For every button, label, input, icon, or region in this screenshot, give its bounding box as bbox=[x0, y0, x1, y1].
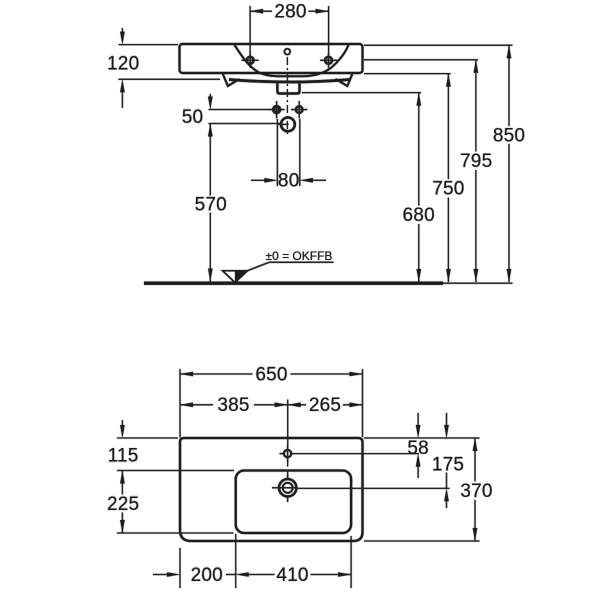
plan: dimension 650 line bbox=[180, 372, 363, 377]
dimension 120 upper arrow bbox=[120, 28, 125, 45]
basin body (front view) bbox=[180, 44, 363, 73]
dimension 50 top extension line bbox=[209, 109, 271, 111]
dimension 280 line bbox=[250, 9, 329, 14]
plan: dimension 175 upper arrow bbox=[444, 413, 449, 438]
plan: dimension 175 lower arrow bbox=[444, 488, 449, 508]
floor level symbol bbox=[223, 262, 334, 282]
dimension 120 bottom extension line bbox=[119, 78, 221, 80]
dimension 120 lower arrow bbox=[120, 79, 125, 108]
apron left tab bbox=[223, 74, 240, 86]
wall supply hole left bbox=[269, 101, 285, 118]
dimension 680 line bbox=[417, 93, 422, 282]
drain outlet box bbox=[277, 84, 299, 94]
plan: bottom extension line bowl right bbox=[350, 536, 352, 588]
wall supply hole right bbox=[291, 101, 307, 118]
extension line 680 bbox=[302, 92, 421, 94]
dimension 280 extension line right bbox=[328, 6, 330, 56]
dimension 570 line bbox=[208, 124, 213, 282]
plan: dimension 58 lower arrow bbox=[416, 454, 421, 478]
plan: dimension 410 line bbox=[236, 572, 351, 577]
plan: right extension line top bbox=[364, 437, 480, 439]
plan: drain bbox=[272, 474, 297, 502]
plan: dimension 370 line bbox=[473, 438, 478, 541]
plan: bowl outline bbox=[236, 471, 351, 534]
plan: dimension 115 upper arrow bbox=[120, 420, 125, 438]
wall drain hole bbox=[279, 118, 295, 132]
plan: left extension line bowl top bbox=[117, 470, 234, 472]
dimension 80 extension line left bbox=[276, 119, 278, 186]
plan: dimension 650 extension line left bbox=[179, 369, 181, 438]
dimension 80 left arrow bbox=[251, 178, 277, 183]
plan: dimension 200 connector bbox=[226, 574, 236, 576]
dimension 280 extension line left bbox=[249, 6, 251, 56]
fixing hole left (front) bbox=[242, 53, 259, 68]
plan: left extension line bowl bottom bbox=[117, 532, 234, 534]
plan: basin outline bbox=[180, 438, 363, 541]
center line (front view) bbox=[286, 57, 288, 137]
plan: dimension 385/265 line bbox=[180, 403, 363, 408]
plan: left extension line top bbox=[117, 437, 178, 439]
dimension 80 right arrow bbox=[300, 178, 326, 183]
plan: dimension 58 upper arrow bbox=[416, 413, 421, 438]
plan: right extension line bottom bbox=[364, 540, 480, 542]
plan: bottom extension line bowl left bbox=[235, 534, 237, 588]
dimension 80 extension line right bbox=[299, 119, 301, 186]
plan: tap hole extension line bbox=[292, 453, 419, 455]
floor line thin bbox=[443, 282, 513, 284]
extension line 750 bbox=[364, 73, 451, 75]
plan: dimension 650 extension line right bbox=[362, 369, 364, 437]
dimension 120 top extension line bbox=[119, 44, 179, 46]
plan: bottom extension line left bbox=[179, 548, 181, 588]
basin underside apron bbox=[229, 80, 350, 83]
dimension 750 line bbox=[446, 74, 451, 282]
dimension 50 bottom extension line bbox=[209, 123, 281, 125]
dimension 50 upper arrow bbox=[208, 94, 213, 110]
fixing hole right (front) bbox=[320, 53, 337, 68]
extension line 850 bbox=[364, 44, 513, 46]
plan: drain extension line bbox=[297, 487, 450, 489]
dimension 850 line bbox=[507, 45, 512, 282]
apron right tab bbox=[336, 74, 353, 86]
plan: center line segment bbox=[287, 460, 289, 479]
plan: middle extension line bbox=[287, 400, 289, 448]
plan: dimension 200 left arrow bbox=[153, 572, 180, 577]
bowl interior curve bbox=[235, 45, 349, 76]
floor line thick bbox=[144, 282, 443, 285]
plan: dimension 175 connector bbox=[446, 473, 448, 489]
extension line 795 bbox=[364, 59, 478, 61]
plan: tap hole bbox=[280, 445, 292, 462]
plan: dimension 225 line bbox=[120, 471, 125, 534]
dimension 795 line bbox=[474, 60, 479, 282]
overflow hole bbox=[284, 49, 290, 55]
